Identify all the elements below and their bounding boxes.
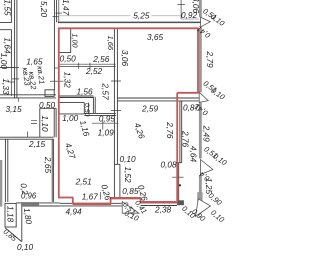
- node dim 2,52 double: [59, 64, 116, 66]
- wall band right of closet: [84, 113, 116, 115]
- wall lift box: [5, 203, 16, 227]
- wall shaft box 1,10: [40, 108, 56, 137]
- svg-text:4,64: 4,64: [189, 146, 199, 163]
- node dim 1,09 line: [92, 122, 118, 124]
- svg-text:3,06: 3,06: [191, 0, 201, 13]
- svg-text:2,76: 2,76: [165, 121, 175, 139]
- wall jog vertical pair: [93, 97, 95, 114]
- wall corridor bottom double: [0, 95, 56, 98]
- wire left room2 box: [0, 30, 11, 68]
- wall edge grey: [0, 160, 2, 207]
- wall pier: [45, 90, 54, 97]
- labels tilted doors: [2, 6, 230, 243]
- wall jog 0,08: [177, 163, 182, 201]
- wall jog 0,10: [114, 164, 120, 197]
- wall bottom double under red: [60, 203, 123, 206]
- svg-text:2,76: 2,76: [181, 130, 191, 148]
- node dim line 5,25 light: [59, 15, 181, 17]
- svg-text:2,79: 2,79: [205, 50, 215, 68]
- wire left room1 right wall: [0, 0, 11, 22]
- svg-text:1,64: 1,64: [3, 37, 13, 54]
- svg-text:1,33: 1,33: [1, 78, 11, 95]
- wall bottom right of door5: [141, 203, 177, 206]
- wall corridor right: [53, 0, 55, 90]
- wall inner right double: [180, 101, 182, 163]
- svg-text:0,50: 0,50: [83, 103, 90, 116]
- wall corridor left double: [15, 0, 17, 98]
- svg-text:0,50: 0,50: [60, 53, 77, 63]
- wall niche top-left: [59, 29, 70, 53]
- node corridor ticks: [12, 67, 19, 79]
- wall room215 left double: [5, 139, 7, 202]
- node tick 1,32: [50, 80, 63, 82]
- labels horizontal: [6, 10, 200, 252]
- svg-text:3,06: 3,06: [120, 50, 130, 67]
- svg-text:2,65: 2,65: [43, 156, 53, 174]
- node tick right wall: [172, 176, 183, 178]
- wall centerroom top double: [117, 98, 198, 101]
- svg-text:1,55: 1,55: [3, 0, 13, 16]
- wall bottom thin left: [16, 202, 21, 204]
- svg-text:2,56: 2,56: [92, 54, 110, 64]
- node dim 1,47: [58, 0, 60, 22]
- wall mid-left horizontal double: [0, 137, 54, 139]
- node ticks on center wall: [111, 81, 121, 111]
- svg-text:3,65: 3,65: [147, 32, 164, 42]
- svg-text:4,94: 4,94: [66, 207, 83, 217]
- door D1: [201, 17, 211, 27]
- svg-text:1,67: 1,67: [82, 191, 99, 201]
- node dim 0,92: [180, 0, 182, 19]
- svg-text:2,38: 2,38: [154, 205, 172, 215]
- svg-text:0,10: 0,10: [17, 242, 34, 252]
- node lintel 0,92: [181, 18, 199, 20]
- wall mid-left vertical double: [52, 139, 53, 202]
- svg-text:0,2: 0,2: [19, 182, 31, 195]
- svg-text:2,52: 2,52: [85, 66, 103, 76]
- svg-text:1,00: 1,00: [62, 113, 79, 123]
- svg-text:2,51: 2,51: [75, 176, 92, 186]
- svg-text:0,10: 0,10: [120, 154, 137, 164]
- wall stair vertical: [21, 207, 23, 242]
- wall closet box: [59, 103, 89, 114]
- red apartment boundary: [58, 28, 199, 204]
- wall apt room bottom: [59, 96, 94, 98]
- svg-text:1,00: 1,00: [0, 53, 9, 70]
- wall hatched block: [21, 202, 39, 207]
- svg-text:1,47: 1,47: [61, 0, 71, 16]
- door D2: [199, 92, 208, 102]
- wire left rooms divider: [0, 67, 15, 69]
- wall stair diagonal: [5, 228, 21, 242]
- node tick below wall: [17, 98, 19, 102]
- door D3: [201, 160, 213, 175]
- wall bottom double mid: [39, 203, 59, 206]
- svg-text:1,18: 1,18: [6, 206, 16, 223]
- svg-text:3,15: 3,15: [6, 104, 23, 114]
- svg-text:5,25: 5,25: [133, 10, 150, 20]
- wall top stub second: [56, 0, 58, 22]
- door D5: [122, 202, 139, 214]
- node equals ticks: [31, 120, 37, 123]
- wall top main: [58, 21, 202, 23]
- svg-text:0,08: 0,08: [161, 160, 178, 170]
- wall outer right segments: [197, 0, 202, 201]
- node tick 1,67: [99, 192, 101, 200]
- svg-text:1,52: 1,52: [123, 167, 133, 184]
- svg-text:2,57: 2,57: [101, 82, 111, 100]
- labels vertical rot90: [0, 0, 215, 225]
- wall junction block: [177, 200, 184, 205]
- svg-text:0,95: 0,95: [99, 114, 116, 124]
- svg-text:0,50: 0,50: [39, 100, 56, 110]
- svg-text:1,66: 1,66: [106, 35, 115, 50]
- svg-text:1,10: 1,10: [40, 115, 50, 132]
- svg-text:2,15: 2,15: [28, 139, 46, 149]
- door D4: [196, 199, 211, 217]
- svg-text:1,32: 1,32: [62, 72, 72, 89]
- node tick y68: [54, 67, 58, 69]
- svg-text:1,00: 1,00: [71, 33, 80, 47]
- node 1,33 dim line: [10, 68, 12, 97]
- svg-text:1,65: 1,65: [26, 56, 43, 66]
- svg-text:1,56: 1,56: [77, 86, 94, 96]
- svg-text:2,59: 2,59: [141, 104, 159, 114]
- svg-text:5,20: 5,20: [39, 1, 49, 18]
- node tick 2,15: [26, 132, 28, 138]
- svg-text:2,49: 2,49: [202, 125, 212, 143]
- node dot: [179, 184, 181, 186]
- wall center vertical double: [114, 28, 117, 197]
- svg-text:1,09: 1,09: [98, 128, 115, 138]
